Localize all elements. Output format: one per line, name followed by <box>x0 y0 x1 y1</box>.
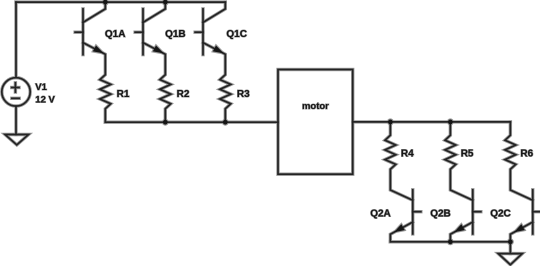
svg-text:Q2A: Q2A <box>370 208 391 219</box>
svg-text:Q1A: Q1A <box>105 29 126 40</box>
svg-text:motor: motor <box>302 101 329 112</box>
svg-text:V1: V1 <box>35 82 47 93</box>
svg-text:R5: R5 <box>461 149 474 160</box>
svg-text:R4: R4 <box>401 149 414 160</box>
svg-text:R6: R6 <box>520 149 533 160</box>
svg-text:Q1B: Q1B <box>165 29 186 40</box>
svg-text:Q1C: Q1C <box>226 29 247 40</box>
svg-text:12 V: 12 V <box>35 95 55 106</box>
svg-text:R2: R2 <box>177 89 190 100</box>
svg-text:Q2B: Q2B <box>430 208 451 219</box>
svg-text:Q2C: Q2C <box>490 208 511 219</box>
svg-text:R1: R1 <box>117 89 130 100</box>
svg-text:R3: R3 <box>237 89 250 100</box>
